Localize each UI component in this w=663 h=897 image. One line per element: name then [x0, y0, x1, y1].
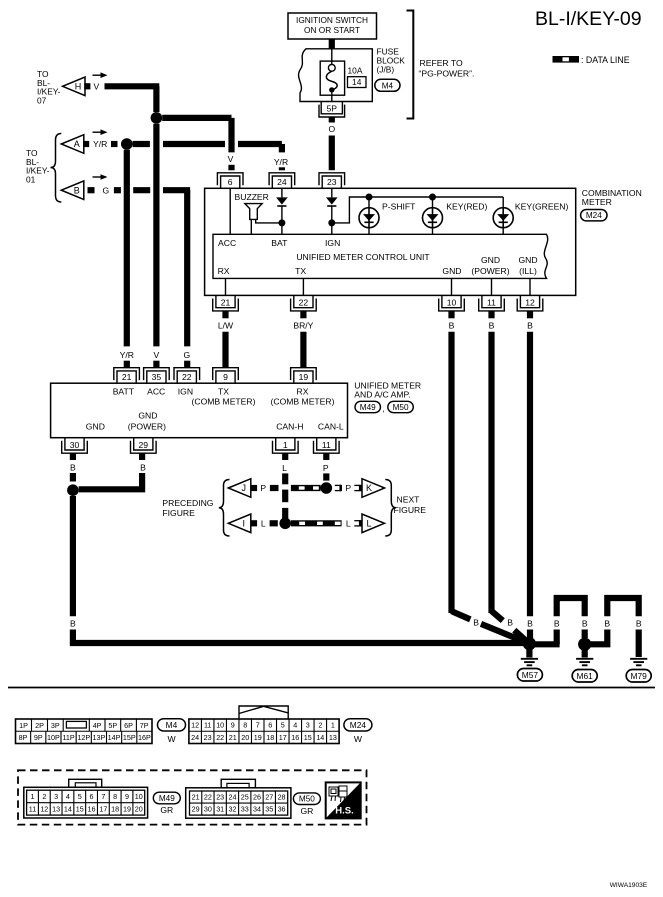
arrow B to BL-I/KEY-01 [61, 181, 84, 200]
svg-text:14: 14 [64, 804, 72, 813]
IGN feed wire [331, 188, 333, 197]
amp connector 22 [174, 368, 200, 384]
separator line [8, 687, 655, 689]
pi link M57-M61 [554, 630, 560, 645]
svg-text:21: 21 [122, 372, 132, 382]
meter connector 22 [291, 295, 317, 311]
svg-text:IGN: IGN [325, 238, 340, 248]
ground bus horizontal [70, 640, 525, 646]
svg-text:M61: M61 [577, 671, 594, 681]
diode on BAT line [276, 197, 288, 204]
svg-text:22: 22 [216, 733, 224, 742]
svg-text:V: V [154, 350, 160, 360]
svg-text:07: 07 [37, 96, 47, 106]
svg-text:B: B [582, 618, 588, 628]
connector 5P below fuse block [319, 102, 345, 118]
ground M61 [582, 650, 588, 658]
svg-text:B: B [473, 618, 479, 628]
svg-text:10P: 10P [47, 733, 60, 742]
svg-text:B: B [489, 320, 495, 330]
svg-text:M24: M24 [586, 211, 602, 220]
svg-text:J: J [242, 483, 247, 493]
arrow A to BL-I/KEY-01 [61, 135, 84, 154]
unified meter and a/c amp box [51, 383, 348, 438]
svg-text:15P: 15P [123, 733, 136, 742]
svg-text:16P: 16P [138, 733, 151, 742]
dashed box connectors with H.S. [18, 770, 367, 824]
wire V vertical [153, 86, 159, 112]
RX feed to pin 21 [225, 278, 227, 295]
diode on IGN line [326, 197, 338, 204]
svg-text:H.S.: H.S. [335, 806, 353, 817]
svg-text:12: 12 [525, 298, 535, 308]
svg-text:CAN-L: CAN-L [318, 421, 344, 431]
svg-text:KEY(GREEN): KEY(GREEN) [515, 202, 569, 212]
svg-text:W: W [354, 734, 363, 744]
svg-text:(J/B): (J/B) [377, 64, 395, 74]
svg-text:18: 18 [266, 733, 274, 742]
svg-text:M4: M4 [166, 720, 178, 730]
brace preceding figure [219, 480, 230, 537]
diagonal wire meter10 B to ground [452, 611, 471, 619]
svg-text:19: 19 [123, 804, 131, 813]
amp connector 21 [114, 368, 140, 384]
connector M24 pinout [239, 706, 288, 719]
wire Y/R to combination meter pin 24 [279, 144, 285, 152]
svg-text:30: 30 [70, 440, 80, 450]
svg-text:28: 28 [278, 793, 286, 802]
svg-text:36: 36 [278, 805, 286, 814]
svg-text:RX: RX [297, 386, 309, 396]
bracket refer to PG-POWER [407, 11, 414, 119]
continuation mark [335, 485, 341, 491]
connector M4 pinout [16, 719, 153, 744]
wire B from meter 11 [488, 311, 494, 318]
wire BR/Y meter 22 to amp 19 [300, 311, 306, 318]
svg-text:12: 12 [40, 804, 48, 813]
svg-text:18: 18 [111, 804, 119, 813]
svg-text:7: 7 [101, 792, 105, 801]
svg-text:B: B [74, 185, 80, 195]
svg-text:12P: 12P [77, 733, 90, 742]
svg-text:NEXT: NEXT [397, 495, 421, 505]
svg-text:13P: 13P [93, 733, 106, 742]
svg-text:GND: GND [518, 255, 537, 265]
wire Y/R horizontal [133, 141, 150, 147]
wire to pi link 1 [535, 641, 560, 647]
svg-text:5: 5 [78, 792, 82, 801]
ground junction dot M61 [578, 638, 591, 651]
svg-text:10: 10 [216, 721, 224, 730]
meter connector 10 [439, 295, 465, 311]
svg-text:BAT: BAT [271, 238, 288, 248]
svg-text:10: 10 [135, 792, 143, 801]
arrow I preceding figure [228, 514, 251, 533]
svg-text:L: L [261, 519, 266, 529]
svg-text:23: 23 [216, 793, 224, 802]
svg-text:WIWA1903E: WIWA1903E [610, 882, 648, 889]
svg-text:24: 24 [228, 793, 236, 802]
svg-text:L: L [366, 519, 371, 529]
svg-text:35: 35 [152, 372, 162, 382]
svg-text:01: 01 [26, 174, 36, 184]
svg-text:P: P [323, 463, 329, 473]
svg-text:V: V [228, 154, 234, 164]
svg-text:20: 20 [241, 733, 249, 742]
svg-text:5: 5 [281, 721, 285, 730]
arrow L next figure [362, 514, 385, 533]
connector M50 pinout [221, 779, 255, 788]
arrow J preceding figure [228, 479, 251, 498]
data line L row [270, 520, 278, 526]
svg-text:17: 17 [99, 804, 107, 813]
svg-text:M4: M4 [382, 81, 394, 90]
svg-text:BL-I/KEY-09: BL-I/KEY-09 [535, 8, 642, 30]
wire B from meter 10 [448, 311, 454, 318]
svg-text:A: A [74, 139, 80, 149]
svg-text:6: 6 [228, 177, 233, 187]
svg-text:34: 34 [253, 805, 261, 814]
junction dot KEY(RED) tap [429, 194, 436, 201]
wire Y/R dash from A arrow [111, 141, 118, 147]
svg-text:1: 1 [31, 792, 35, 801]
fuse 14 10A [320, 61, 344, 95]
svg-text:5P: 5P [327, 104, 338, 114]
amp connector 19 [291, 368, 317, 384]
svg-text:29: 29 [192, 805, 200, 814]
wire Y/R vertical down [124, 150, 130, 347]
svg-text:TX: TX [295, 266, 306, 276]
svg-text:GND: GND [481, 255, 500, 265]
LED KEY(GREEN) [502, 197, 504, 208]
svg-text:14: 14 [352, 77, 362, 87]
svg-text:BUZZER: BUZZER [235, 192, 269, 202]
ground junction dot M57 [523, 637, 536, 650]
BAT feed wire [281, 188, 283, 197]
svg-text:22: 22 [299, 298, 309, 308]
svg-text:22: 22 [204, 793, 212, 802]
amp connector 11 [314, 438, 340, 454]
svg-text:REFER TO: REFER TO [420, 58, 463, 68]
svg-text:G: G [103, 185, 110, 195]
wire G dashes from B arrow [114, 187, 121, 193]
data line CAN-L vertical [323, 473, 329, 480]
svg-text:16: 16 [88, 804, 96, 813]
data line P row [270, 485, 279, 491]
svg-text:B: B [527, 320, 533, 330]
wire V horizontal from H arrow [105, 83, 160, 89]
wire L from amp 1 CAN-H [282, 453, 288, 460]
svg-text:TX: TX [218, 386, 229, 396]
pi link M61-M79 [591, 630, 608, 645]
continuation mark [354, 485, 360, 491]
wire V to combination meter pin 6 [162, 115, 231, 121]
svg-text:“PG-POWER”.: “PG-POWER”. [419, 69, 475, 79]
meter connector 21 [213, 295, 239, 311]
wire G vertical down [184, 190, 190, 346]
data line L row right [291, 520, 342, 526]
svg-text:RX: RX [218, 266, 230, 276]
svg-text:23: 23 [204, 733, 212, 742]
meter connector 23 [319, 173, 345, 189]
svg-text:(COMB METER): (COMB METER) [192, 396, 256, 406]
wire V vertical continue [153, 124, 159, 347]
svg-text:B: B [70, 618, 76, 628]
svg-text:,: , [382, 404, 384, 414]
svg-text:4P: 4P [93, 721, 102, 730]
svg-text:23: 23 [327, 177, 337, 187]
svg-text:30: 30 [204, 805, 212, 814]
wire ignition switch to fuse block [329, 39, 335, 49]
ground M79 [630, 658, 647, 660]
svg-text:M79: M79 [631, 671, 648, 681]
svg-text:17: 17 [279, 733, 287, 742]
svg-text:UNIFIED METER CONTROL UNIT: UNIFIED METER CONTROL UNIT [296, 252, 430, 262]
svg-text:M50: M50 [299, 795, 315, 804]
svg-text:15: 15 [304, 733, 312, 742]
svg-text:V: V [94, 82, 100, 92]
ACC feed wire [229, 188, 231, 234]
H.S. logo [326, 782, 361, 818]
svg-text:20: 20 [135, 804, 143, 813]
svg-text:(POWER): (POWER) [471, 266, 509, 276]
wire P from amp 11 CAN-L [323, 453, 329, 460]
svg-text:W: W [167, 734, 176, 744]
continuation mark [354, 520, 360, 526]
svg-text:15: 15 [76, 804, 84, 813]
arrow K next figure [362, 479, 385, 498]
svg-text:AND A/C AMP.: AND A/C AMP. [354, 390, 410, 400]
svg-text:25: 25 [241, 793, 249, 802]
svg-text:B: B [636, 618, 642, 628]
svg-text:1: 1 [283, 440, 288, 450]
data line CAN-H vertical [282, 473, 288, 484]
svg-text:11: 11 [29, 804, 36, 813]
svg-text:9: 9 [231, 721, 235, 730]
amp connector 1 [273, 438, 299, 454]
svg-text:KEY(RED): KEY(RED) [446, 202, 487, 212]
junction dot CAN-H [279, 518, 291, 530]
combination meter box [205, 188, 576, 295]
svg-text:8: 8 [243, 721, 247, 730]
svg-text:21: 21 [192, 793, 200, 802]
amp connector 30 [62, 438, 88, 454]
amp M50 oval [388, 401, 414, 412]
svg-text:10A: 10A [348, 66, 363, 76]
svg-text:31: 31 [216, 805, 224, 814]
wire B from amp 30 [70, 453, 76, 460]
svg-text:P: P [260, 483, 266, 493]
fuse block connector M4 oval [375, 79, 400, 91]
svg-text:3: 3 [54, 792, 58, 801]
svg-text:ACC: ACC [218, 238, 236, 248]
brace next figure [385, 480, 396, 537]
IGN branch to LEDs [332, 197, 503, 223]
svg-text:Y/R: Y/R [274, 157, 288, 167]
svg-text:I: I [243, 519, 246, 529]
svg-text:11: 11 [487, 298, 496, 308]
LED P-SHIFT [368, 197, 370, 208]
diagonal wire meter11 B to ground [492, 611, 503, 621]
svg-text:B: B [507, 618, 513, 628]
svg-text:9: 9 [125, 792, 129, 801]
svg-text:G: G [184, 350, 191, 360]
junction dot V [151, 112, 163, 124]
svg-text:L/W: L/W [218, 320, 234, 330]
svg-text:24: 24 [191, 733, 199, 742]
svg-text:Y/R: Y/R [120, 350, 134, 360]
svg-text:9P: 9P [34, 733, 43, 742]
wire B from meter 12 [527, 311, 533, 318]
svg-text:L: L [346, 519, 351, 529]
meter connector 11 [479, 295, 505, 311]
svg-text:32: 32 [228, 805, 236, 814]
LED KEY(RED) [432, 197, 434, 208]
svg-text:29: 29 [139, 440, 149, 450]
svg-text:2: 2 [42, 792, 46, 801]
svg-text:11P: 11P [62, 733, 74, 742]
meter connector 24 [269, 173, 295, 189]
svg-text:2P: 2P [35, 721, 44, 730]
svg-text:GND: GND [138, 411, 157, 421]
svg-text:P: P [345, 483, 351, 493]
svg-text:IGN: IGN [178, 386, 193, 396]
svg-text:B: B [449, 320, 455, 330]
svg-text:GR: GR [160, 805, 173, 815]
connector M49 pinout [69, 779, 102, 787]
svg-text:16: 16 [291, 733, 299, 742]
junction dot P-SHIFT tap [366, 194, 373, 201]
svg-text:METER: METER [582, 197, 612, 207]
junction dot B bus [67, 484, 79, 496]
svg-text:ACC: ACC [147, 386, 165, 396]
svg-text:35: 35 [265, 805, 273, 814]
svg-text:21: 21 [221, 298, 231, 308]
svg-text:: DATA LINE: : DATA LINE [581, 55, 630, 65]
svg-text:3: 3 [306, 721, 310, 730]
TX feed to pin 22 [302, 278, 304, 295]
svg-text:BR/Y: BR/Y [293, 320, 313, 330]
svg-text:12: 12 [191, 721, 199, 730]
ignition switch box [288, 13, 377, 39]
svg-text:L: L [282, 463, 287, 473]
data line legend [553, 56, 580, 63]
svg-text:33: 33 [241, 805, 249, 814]
svg-text:8P: 8P [19, 733, 28, 742]
svg-text:GND: GND [86, 421, 105, 431]
svg-text:P-SHIFT: P-SHIFT [382, 202, 416, 212]
svg-text:7: 7 [256, 721, 260, 730]
svg-text:19: 19 [299, 372, 309, 382]
svg-text:M57: M57 [522, 670, 539, 680]
svg-text:PRECEDING: PRECEDING [162, 498, 213, 508]
svg-text:8: 8 [113, 792, 117, 801]
wire stub below 5P [329, 117, 335, 123]
junction dot BAT-buzzer [278, 219, 285, 226]
svg-text:13: 13 [329, 733, 337, 742]
svg-text:M24: M24 [350, 720, 367, 730]
svg-text:9: 9 [223, 372, 228, 382]
svg-text:M49: M49 [159, 794, 175, 803]
unified meter control unit inner box [213, 234, 548, 278]
wire B from amp 29 [139, 453, 145, 460]
svg-text:3P: 3P [51, 721, 60, 730]
svg-text:FIGURE: FIGURE [394, 505, 427, 515]
svg-text:4: 4 [66, 792, 70, 801]
meter connector 6 [217, 173, 243, 189]
svg-text:13: 13 [52, 804, 60, 813]
svg-text:K: K [366, 483, 372, 493]
svg-text:ON OR START: ON OR START [304, 25, 360, 35]
svg-text:1: 1 [331, 721, 335, 730]
svg-text:B: B [140, 463, 146, 473]
GND feeds to pins 10 11 12 [451, 278, 453, 295]
svg-text:5P: 5P [108, 721, 117, 730]
svg-text:1P: 1P [19, 721, 28, 730]
wire B bus down [70, 496, 76, 616]
svg-text:10: 10 [447, 298, 457, 308]
svg-text:4: 4 [293, 721, 297, 730]
svg-text:(COMB METER): (COMB METER) [271, 396, 335, 406]
svg-text:22: 22 [182, 372, 192, 382]
wire L/W meter 21 to amp 9 [222, 311, 228, 318]
svg-text:IGNITION SWITCH: IGNITION SWITCH [296, 15, 368, 25]
svg-text:Y/R: Y/R [93, 139, 107, 149]
svg-text:BATT: BATT [113, 386, 135, 396]
svg-text:6: 6 [268, 721, 272, 730]
svg-text:B: B [70, 463, 76, 473]
svg-text:6P: 6P [124, 721, 133, 730]
svg-text:M49: M49 [360, 403, 376, 412]
svg-text:19: 19 [254, 733, 262, 742]
svg-text:11: 11 [322, 440, 331, 450]
svg-text:7P: 7P [140, 721, 149, 730]
ground M57 [526, 650, 532, 658]
svg-text:CAN-H: CAN-H [276, 421, 303, 431]
svg-text:21: 21 [229, 733, 237, 742]
arrow H to BL-I/KEY-07 [63, 77, 86, 96]
junction dot CAN-L [321, 482, 333, 494]
brace for TO BL-I/KEY-01 [51, 134, 62, 203]
amp connector 35 [144, 368, 170, 384]
wire O down to connector 23 [329, 136, 335, 171]
svg-text:H: H [75, 82, 82, 92]
fuse block (J/B) [299, 49, 373, 102]
amp connector 9 [213, 368, 239, 384]
junction dot IGN branch [328, 219, 335, 226]
junction dot Y/R [121, 138, 133, 150]
svg-text:14: 14 [316, 733, 324, 742]
svg-text:27: 27 [265, 793, 273, 802]
svg-text:FIGURE: FIGURE [162, 508, 195, 518]
svg-text:GR: GR [300, 806, 313, 816]
svg-text:GND: GND [442, 266, 461, 276]
meter connector 12 [517, 295, 543, 311]
svg-text:6: 6 [90, 792, 94, 801]
svg-text:26: 26 [253, 793, 261, 802]
svg-text:B: B [554, 618, 560, 628]
svg-text:M50: M50 [393, 403, 409, 412]
meter M24 oval [581, 210, 607, 221]
amp connector 29 [131, 438, 157, 454]
amp M49 oval [355, 401, 381, 412]
svg-text:11: 11 [204, 721, 211, 730]
svg-text:14P: 14P [108, 733, 121, 742]
svg-text:B: B [527, 618, 533, 628]
svg-text:(ILL): (ILL) [519, 266, 537, 276]
svg-text:2: 2 [318, 721, 322, 730]
svg-text:B: B [604, 618, 610, 628]
